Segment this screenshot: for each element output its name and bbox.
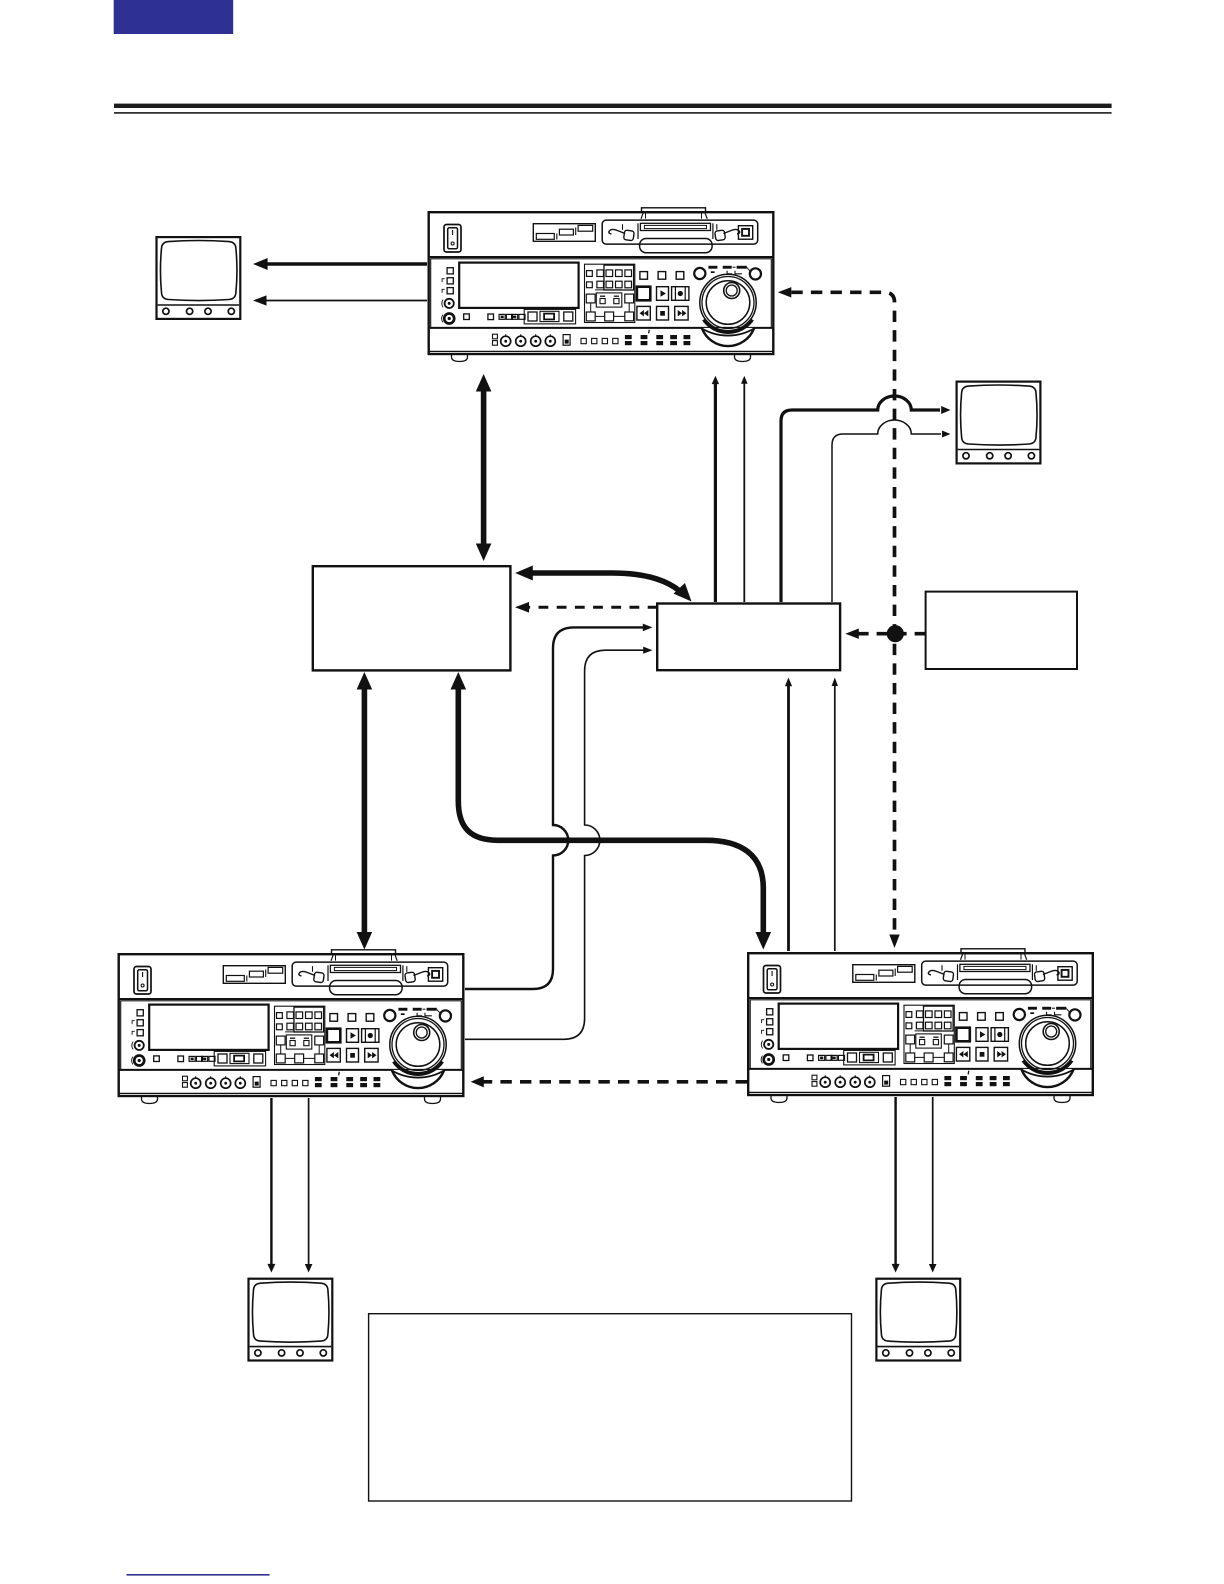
wire: B1 to B2 bidirectional (thick curved double arrow): [515, 566, 697, 607]
box B1 (editing controller, middle left): [313, 566, 511, 670]
wire: B2 to B1 dashed reference: [515, 602, 658, 613]
wire: B2 video to monitor M2 (medium, hop over dashed line): [781, 396, 951, 602]
blue footer line: [127, 1574, 270, 1576]
wire: U1 to B1 bidirectional control (thick double arrow): [476, 374, 492, 561]
wire: B2 audio to monitor M2 (thin, hop over dashed line): [832, 420, 951, 602]
VTR unit U3 (player, bottom right): [748, 949, 1093, 1103]
wire: B2 audio to U1 (thin up arrow): [741, 376, 748, 602]
header double rule: thick line: [114, 104, 1112, 108]
wire: U1 audio out to monitor M1 (thin): [253, 295, 427, 305]
wire: dashed reference U3 to U2: [471, 1076, 747, 1087]
wire: U3 video to monitor M4 (medium down arrow): [892, 1097, 900, 1273]
wire: B1 to U2 control (thick double arrow): [357, 672, 373, 950]
monitor M4 (bottom right): [876, 1279, 960, 1361]
wire: U2 video to monitor M3 (medium down arrow): [267, 1098, 275, 1273]
header double rule: thin line: [114, 112, 1112, 114]
wire: U2 audio to monitor M3 (thin down arrow): [305, 1098, 313, 1273]
monitor M3 (bottom left): [249, 1279, 333, 1361]
wire: dashed reference B3 to B2: [845, 629, 925, 639]
monitor M1 (top left): [157, 237, 241, 319]
wire: U3 audio out to B2 (thin up arrow): [832, 678, 838, 952]
wire: U2 video out to B2 (medium, hops over thick line): [465, 624, 652, 989]
wire: U3 audio to monitor M4 (thin down arrow): [929, 1097, 937, 1273]
junction node on dashed reference line: [887, 625, 904, 642]
box B2 (switcher, middle center): [657, 604, 840, 671]
wire: dashed reference line to U1 and down to U3: [778, 287, 900, 948]
monitor M2 (top right): [957, 382, 1041, 464]
wire: U2 audio out to B2 (thin, hops over thick line): [465, 647, 652, 1040]
wire: B1 to U3 control (thick S-curve arrow): [451, 672, 772, 950]
blue header block: [114, 0, 234, 34]
wire: B2 video to U1 (medium up arrow): [712, 376, 719, 602]
VTR unit U1 (editing recorder, top): [429, 208, 774, 362]
wire: U3 video out to B2 (medium up arrow): [785, 678, 792, 952]
box B4 (note area, bottom center): [369, 1314, 852, 1501]
VTR unit U2 (player, bottom left): [119, 950, 464, 1104]
wire: U1 video out to monitor M1 (thick): [253, 258, 427, 270]
box B3 (sync generator, middle right): [926, 592, 1077, 669]
